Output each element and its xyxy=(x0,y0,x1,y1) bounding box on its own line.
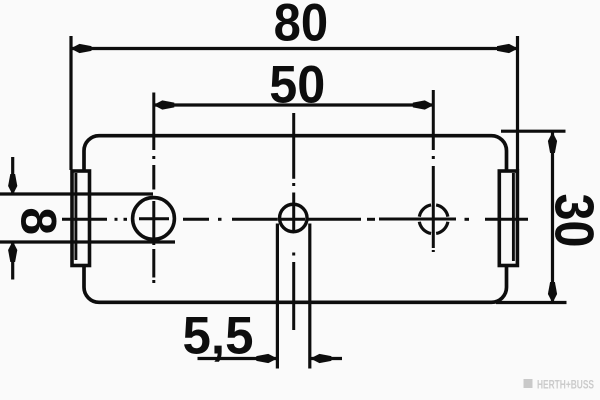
8 arrows xyxy=(8,174,17,195)
vertical centerline hole 2 xyxy=(292,113,295,330)
left tab xyxy=(72,171,90,266)
50 arrows xyxy=(153,100,174,109)
plate outline (rounded rectangle) xyxy=(84,136,507,303)
dimension 30: dim line xyxy=(551,132,554,303)
vertical centerline hole 3 xyxy=(432,90,435,252)
dimension 50: line xyxy=(154,103,434,106)
svg-text:30: 30 xyxy=(544,194,600,248)
30 arrows xyxy=(548,132,557,153)
svg-text:8: 8 xyxy=(10,207,66,235)
dimension 80: extension lines xyxy=(69,36,72,170)
dimension 8: extension lines xyxy=(0,192,153,195)
80 arrows xyxy=(71,44,92,53)
hole 3 (dashed circle) xyxy=(419,205,448,234)
5,5 arrows xyxy=(256,354,277,363)
dimension 5,5: dim lines xyxy=(198,357,278,360)
hole 2 (Ø5,5) xyxy=(280,204,308,232)
horizontal centerline xyxy=(62,217,528,221)
watermark logo xyxy=(524,379,595,392)
svg-text:HERTH+BUSS: HERTH+BUSS xyxy=(537,380,594,392)
svg-text:50: 50 xyxy=(269,56,325,115)
dimension 5,5: extension lines xyxy=(276,224,279,369)
svg-text:5,5: 5,5 xyxy=(183,306,254,365)
dimension 8: dim line xyxy=(11,157,14,194)
dimension 30: extension lines xyxy=(501,130,566,133)
right tab xyxy=(499,171,517,266)
arrowheads xyxy=(8,44,557,363)
svg-text:80: 80 xyxy=(274,0,329,52)
dimension 80: line xyxy=(71,47,518,50)
vertical centerline hole 1 xyxy=(152,93,155,284)
hole 1 (Ø8) xyxy=(133,198,175,240)
